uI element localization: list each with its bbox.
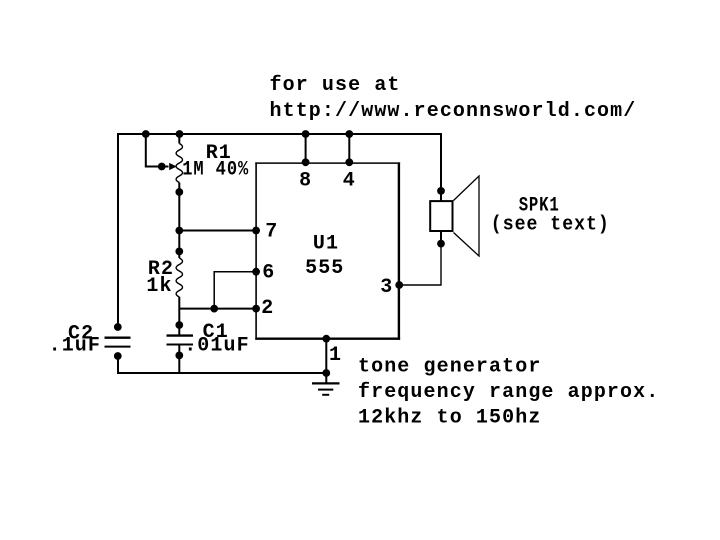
svg-text:8: 8	[299, 169, 312, 192]
svg-text:http://www.reconnsworld.com/: http://www.reconnsworld.com/	[270, 100, 637, 123]
svg-text:tone generator: tone generator	[358, 355, 541, 378]
svg-text:4: 4	[343, 169, 356, 192]
svg-text:for use at: for use at	[270, 74, 401, 97]
svg-text:6: 6	[262, 262, 275, 285]
svg-text:U1: U1	[313, 233, 339, 256]
svg-text:(see text): (see text)	[491, 213, 610, 236]
svg-text:1: 1	[329, 344, 342, 367]
svg-text:7: 7	[265, 221, 278, 244]
svg-text:555: 555	[305, 257, 344, 280]
svg-text:3: 3	[380, 276, 393, 299]
svg-text:1M 40%: 1M 40%	[182, 159, 249, 182]
svg-text:2: 2	[261, 297, 274, 320]
svg-text:12khz to 150hz: 12khz to 150hz	[358, 406, 541, 429]
svg-text:frequency range approx.: frequency range approx.	[358, 381, 659, 404]
svg-text:1k: 1k	[146, 275, 172, 298]
svg-text:.01uF: .01uF	[184, 335, 250, 358]
svg-text:.1uF: .1uF	[49, 335, 101, 358]
